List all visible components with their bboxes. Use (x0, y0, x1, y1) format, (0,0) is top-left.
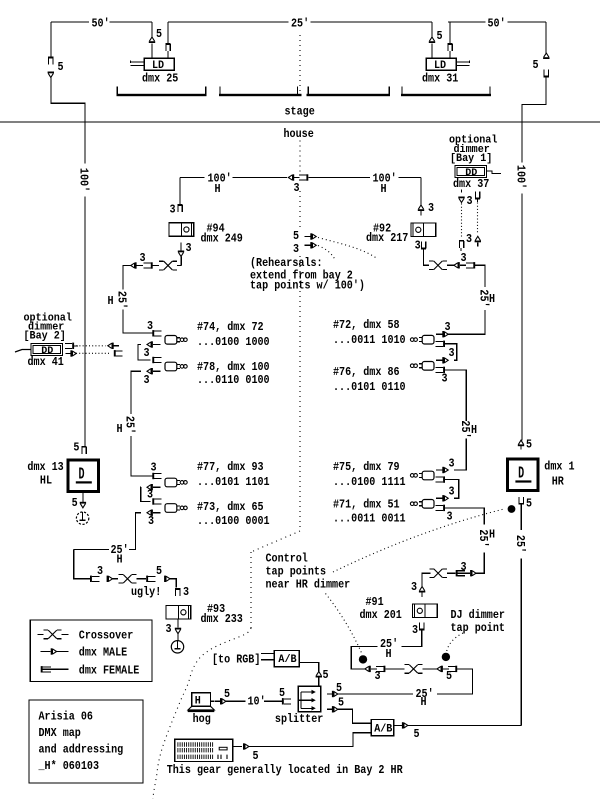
svg-text:dmx 37: dmx 37 (453, 177, 489, 191)
svg-text:3: 3 (466, 232, 472, 246)
svg-text:tap points: tap points (266, 565, 327, 579)
info box (29, 700, 143, 783)
crossover ugly (119, 574, 124, 576)
svg-text:#78, dmx 100: #78, dmx 100 (197, 360, 270, 374)
svg-text:3: 3 (140, 251, 146, 265)
svg-text:...0011 1010: ...0011 1010 (333, 333, 406, 347)
wire A/B1 to splitter (299, 663, 318, 672)
male connector above LD25 (149, 37, 154, 41)
coupling male center (292, 174, 294, 180)
dimmer LD31 box (426, 58, 456, 70)
female connector above LD25 (165, 43, 170, 45)
svg-text:dmx 13: dmx 13 (27, 460, 63, 474)
svg-text:3: 3 (170, 203, 176, 217)
svg-text:3: 3 (442, 372, 448, 386)
svg-text:DJ dimmer: DJ dimmer (451, 608, 505, 622)
bay1 lower male (475, 236, 480, 240)
wire 25' H down-left run (123, 266, 131, 290)
svg-text:25': 25' (115, 291, 129, 309)
svg-text:#71, dmx 51: #71, dmx 51 (333, 498, 400, 512)
dotted center line house upper (299, 141, 301, 174)
svg-text:...0100 0001: ...0100 0001 (197, 514, 270, 528)
svg-text:dmx 25: dmx 25 (142, 72, 178, 86)
svg-text:3: 3 (449, 457, 455, 471)
female connector below HR (519, 503, 524, 505)
stage edge section 4 (401, 94, 491, 96)
svg-text:and addressing: and addressing (39, 743, 124, 757)
fixture #77 output male (151, 484, 153, 490)
hog out male (211, 700, 214, 702)
ugly chain male 2 (164, 576, 166, 582)
svg-text:H: H (117, 422, 123, 436)
rack out male (233, 746, 242, 748)
svg-text:3: 3 (147, 319, 153, 333)
wire 100' H house-left run (180, 177, 205, 179)
svg-text:3: 3 (415, 239, 421, 253)
wire 25' center stage run (168, 21, 289, 23)
svg-text:...0110 0100: ...0110 0100 (197, 373, 270, 387)
DD bay1 male port (461, 190, 463, 193)
fixture #94 box (169, 223, 194, 237)
svg-text:100': 100' (514, 165, 528, 189)
splitter out1 male (327, 693, 332, 695)
fixture #73 output male (151, 510, 153, 516)
tap point dot left (359, 655, 367, 663)
wire #78 long run down to #77 (131, 371, 141, 414)
fixture #75 body (422, 471, 434, 480)
legend male symbol (51, 648, 53, 654)
wire below HL (82, 493, 84, 504)
splitter out2 male (327, 708, 332, 710)
svg-text:5: 5 (533, 58, 539, 72)
svg-text:25': 25' (476, 529, 490, 547)
female connector above HL (81, 446, 86, 448)
fixture #71 body (422, 500, 434, 509)
rehearsal tap male lower (310, 242, 312, 248)
wire ugly to #93 (170, 579, 176, 588)
svg-text:tap point: tap point (451, 621, 505, 635)
dotted bay2 boundary vertical (250, 552, 252, 628)
wire drop to #94 (179, 178, 181, 206)
male connector above #91 (420, 587, 425, 591)
wire 25' horizontal above ugly (74, 549, 109, 551)
male connector below #94 (178, 252, 183, 256)
svg-text:hog: hog (193, 712, 211, 726)
svg-text:dmx 31: dmx 31 (422, 72, 458, 86)
house separation line (0, 121, 600, 123)
svg-text:3: 3 (97, 564, 103, 578)
dotted rehearsal tap upper (318, 238, 377, 259)
RGB cable pair (261, 653, 274, 655)
female connector above LD31 (447, 43, 452, 45)
dotted link bay2 lower (76, 352, 111, 354)
coupling male lower chain left (369, 666, 371, 672)
svg-text:5: 5 (293, 229, 299, 243)
dimmer DD bay1 box (455, 166, 487, 178)
dotted bay2 boundary diagonal (251, 531, 300, 552)
wire 25' to #74 (123, 310, 152, 333)
wire 25' left segment (351, 646, 377, 669)
female connector below #92 (421, 248, 426, 250)
bay2 upper male (112, 343, 114, 349)
switch A/B 2 box (371, 719, 394, 735)
svg-text:H: H (386, 647, 392, 661)
male connector below #93 (175, 630, 180, 634)
bay1 lower female (459, 240, 464, 242)
dotted center line house lower (299, 256, 301, 531)
svg-text:5: 5 (414, 727, 420, 741)
wire #77 to #73 jumper (141, 487, 151, 501)
dimmer HL box (68, 460, 98, 492)
fixture #76 output female (443, 367, 445, 373)
fixture #72 output female (443, 341, 445, 347)
rehearsal tap male upper (310, 233, 312, 239)
svg-text:dmx FEMALE: dmx FEMALE (79, 664, 140, 678)
wire down to DJ crossover (476, 553, 484, 574)
wire #74 to #78 jumper (138, 345, 150, 361)
svg-text:3: 3 (151, 461, 157, 475)
tap dot near HR (508, 505, 516, 513)
svg-text:house: house (284, 127, 314, 141)
dotted link bay2 upper (73, 345, 106, 347)
svg-text:dmx 41: dmx 41 (28, 355, 64, 369)
wire crossover to #91 (422, 573, 430, 586)
wire splitter out1 to corner (338, 693, 413, 695)
svg-text:5: 5 (437, 29, 443, 43)
svg-text:50': 50' (488, 17, 506, 31)
fixture #74 input female (152, 330, 154, 336)
legend crossover symbol (38, 633, 44, 635)
svg-text:#74, dmx 72: #74, dmx 72 (197, 320, 264, 334)
svg-text:LD: LD (434, 60, 446, 72)
fixture #77 body (165, 478, 177, 487)
svg-text:H: H (489, 528, 495, 542)
svg-text:3: 3 (449, 485, 455, 499)
svg-text:5: 5 (323, 668, 329, 682)
svg-text:splitter: splitter (275, 712, 323, 726)
DD bay1 lead line (487, 171, 502, 174)
wire #92 to crossover (424, 249, 430, 266)
wire LD25 5' drop from 50' (151, 22, 153, 37)
dotted center line above stage (299, 35, 301, 92)
male connector above LD31 (429, 37, 434, 41)
svg-text:H: H (489, 292, 495, 306)
wire #71 down run to crossover (445, 508, 484, 525)
svg-text:3: 3 (183, 585, 189, 599)
dimmer DD bay2 box (31, 344, 63, 356)
svg-text:dmx 249: dmx 249 (201, 232, 243, 246)
splitter internal fork (300, 692, 302, 708)
coupling male left FOH (135, 262, 137, 268)
svg-text:5: 5 (336, 681, 342, 695)
svg-text:5: 5 (526, 438, 532, 452)
stage edge section 1 (117, 94, 207, 96)
legend female symbol (41, 666, 43, 672)
wire #75 to #71 jumper (445, 480, 459, 499)
female connector above #93 (175, 588, 180, 590)
svg-text:LD: LD (152, 60, 164, 72)
svg-text:...0011 0011: ...0011 0011 (333, 512, 406, 526)
ugly chain female 1 (90, 576, 92, 582)
stage edge section 3 (307, 94, 391, 96)
svg-text:H: H (381, 182, 387, 196)
wire down to #75 (454, 439, 466, 471)
svg-text:5: 5 (72, 496, 78, 510)
svg-text:100': 100' (77, 168, 91, 192)
svg-text:dmx 201: dmx 201 (360, 608, 402, 622)
female at splitter input (282, 698, 284, 704)
svg-text:3: 3 (294, 181, 300, 195)
dotted bay2 boundary curve (153, 628, 251, 799)
svg-text:[to RGB]: [to RGB] (212, 653, 260, 667)
dotted callout control to left tap dot (326, 594, 363, 655)
male connector above #92 (418, 205, 423, 209)
svg-text:#77, dmx 93: #77, dmx 93 (197, 460, 264, 474)
wire #72 to #76 jumper (445, 344, 457, 361)
svg-text:#72, dmx 58: #72, dmx 58 (333, 318, 400, 332)
svg-text:H: H (108, 294, 114, 308)
fixture #74 body (165, 336, 177, 345)
dimmer HR box (508, 459, 538, 491)
svg-text:HR: HR (552, 474, 565, 488)
dimmer LD25 box (144, 58, 174, 70)
DD bay2 male port (70, 350, 72, 356)
svg-text:5: 5 (279, 686, 285, 700)
svg-text:25': 25' (458, 420, 472, 438)
wire LD25 drop from 25' line (167, 22, 169, 44)
crossover left FOH (159, 260, 164, 262)
svg-text:...0101 0110: ...0101 0110 (333, 380, 406, 394)
wire below #93 (177, 619, 179, 628)
svg-text:H: H (195, 696, 201, 708)
fixture #78 input female (152, 357, 154, 363)
crossover DJ chain (429, 568, 434, 570)
hog console box (192, 693, 211, 707)
terminator at HL (76, 512, 88, 524)
svg-text:H: H (421, 695, 427, 709)
svg-text:50': 50' (92, 17, 110, 31)
coupling female lower chain left (384, 666, 386, 672)
fixture #75 output female (443, 476, 445, 482)
coupling female right FOH (473, 262, 475, 268)
svg-text:3: 3 (144, 346, 150, 360)
coupling female lower chain right (455, 666, 457, 672)
fixture #76 body (422, 362, 434, 371)
female connector above #94 (177, 204, 182, 206)
svg-text:25': 25' (513, 535, 527, 553)
ugly chain male 1 (107, 576, 109, 582)
svg-text:near HR dimmer: near HR dimmer (266, 578, 351, 592)
svg-text:25': 25' (123, 416, 137, 434)
svg-text:This gear generally located in: This gear generally located in Bay 2 HR (167, 763, 404, 777)
svg-text:...0100 1000: ...0100 1000 (197, 335, 270, 349)
svg-text:[Bay 2]: [Bay 2] (24, 331, 66, 343)
wire hog to splitter (226, 700, 246, 702)
svg-text:3: 3 (147, 488, 153, 502)
svg-text:3: 3 (449, 346, 455, 360)
svg-text:5: 5 (58, 60, 64, 74)
svg-text:3: 3 (467, 194, 473, 208)
tap point dot right (442, 653, 450, 661)
wire 50' stage-right horizontal run (448, 21, 486, 23)
svg-text:3: 3 (412, 623, 418, 637)
svg-text:5: 5 (73, 441, 79, 455)
crossover right FOH (429, 260, 434, 262)
svg-text:dmx 233: dmx 233 (201, 612, 243, 626)
svg-text:ugly!: ugly! (131, 585, 161, 599)
DD bay2 female port (72, 343, 74, 349)
wire below #94 (180, 243, 182, 251)
rack vents (178, 742, 213, 746)
switch A/B 1 box (274, 651, 299, 667)
male connector on stage-right drop (544, 53, 549, 57)
male connector into splitter (316, 672, 321, 676)
fixture #92 box (411, 223, 436, 237)
svg-text:H: H (215, 182, 221, 196)
fixture #73 body (165, 504, 177, 513)
wire #73 down to 25' run (129, 513, 141, 550)
fixture #71 output female (443, 505, 445, 511)
terminator at #93 (171, 641, 183, 653)
wire stage-left drop lower (51, 78, 85, 164)
fixture #78 body (165, 362, 177, 371)
wire #94 to crossover (180, 257, 182, 266)
female connector on stage-left drop (48, 57, 53, 59)
fixture #78 output male (151, 368, 153, 374)
female connector on stage-right drop (544, 76, 549, 78)
male connector on stage-left drop (48, 73, 53, 77)
wire HR down run (520, 504, 522, 530)
wire splitter out2 to A/B2 (338, 709, 371, 723)
coupling male at DJ chain (470, 570, 472, 576)
svg-text:5: 5 (224, 687, 230, 701)
svg-text:dmx 217: dmx 217 (366, 231, 408, 245)
svg-text:5: 5 (338, 696, 344, 710)
dotted rehearsal tap lower (318, 246, 335, 260)
fixture #71 input male (442, 495, 444, 501)
ugly chain female 2 (146, 576, 148, 582)
wire LD31 drop from 50' line (449, 22, 451, 44)
wire down to #77 (131, 436, 152, 476)
wire #91 down to 25' run (401, 630, 422, 647)
rack device box (175, 739, 233, 761)
svg-text:[Bay 1]: [Bay 1] (450, 153, 492, 165)
wire HR down run lower (520, 559, 522, 726)
male connector above HR (518, 440, 523, 444)
wire down to ugly chain (74, 550, 90, 579)
DD bay1 female port (475, 198, 480, 200)
svg-text:25': 25' (291, 17, 309, 31)
wire 25' to #72 (448, 310, 485, 334)
fixture #93 box (166, 606, 191, 620)
wire 100' H house-right run (308, 177, 370, 179)
svg-text:tap points w/ 100'): tap points w/ 100') (250, 278, 365, 292)
dotted callout control to HR dot (333, 509, 504, 572)
svg-text:HL: HL (40, 474, 52, 488)
svg-text:#75, dmx 79: #75, dmx 79 (333, 460, 400, 474)
wire rack to A/B2 lower port (249, 733, 371, 747)
svg-text:3: 3 (461, 560, 467, 574)
svg-text:A/B: A/B (278, 654, 297, 666)
svg-text:10': 10' (248, 695, 266, 709)
coupling female center (306, 174, 308, 180)
wire stage-right drop to house-right 100' (545, 22, 547, 53)
fixture #76 input male (442, 357, 444, 363)
svg-text:5: 5 (526, 497, 532, 511)
dotted callout DJ tap point (447, 633, 464, 652)
svg-text:3: 3 (144, 373, 150, 387)
svg-text:3: 3 (411, 580, 417, 594)
svg-text:Control: Control (266, 552, 308, 566)
svg-text:5: 5 (253, 749, 259, 763)
svg-text:dmx MALE: dmx MALE (79, 646, 127, 660)
wire #76 down run (445, 370, 466, 421)
svg-text:_H* 060103: _H* 060103 (38, 759, 99, 773)
svg-text:...0101 1101: ...0101 1101 (197, 475, 270, 489)
svg-text:3: 3 (447, 510, 453, 524)
wire house-left 100' vertical (84, 197, 86, 447)
wire drop to #92 (420, 178, 422, 206)
svg-text:#73, dmx 65: #73, dmx 65 (197, 500, 264, 514)
coupling female left FOH (151, 262, 153, 268)
bay2 lower female (114, 350, 116, 356)
fixture #91 box (413, 604, 438, 618)
fixture #73 input female (152, 498, 154, 504)
wire house-right 100' vertical (521, 194, 523, 441)
fixture #72 body (422, 335, 434, 344)
wire stage-left drop to house-left 100' (50, 22, 52, 58)
svg-text:A/B: A/B (374, 724, 393, 736)
wire 50' stage-left horizontal run (51, 21, 89, 23)
wire lower chain to splitter level (437, 669, 472, 694)
coupling male lower chain right (441, 666, 443, 672)
stage edge section 2 (219, 94, 302, 96)
female connector below #91 (419, 629, 424, 631)
A/B2 out male (394, 724, 402, 726)
svg-text:Crossover: Crossover (79, 629, 133, 643)
legend box (30, 620, 152, 682)
coupling female at DJ chain (456, 570, 458, 576)
dotted link bay1 right (477, 203, 479, 235)
wire 25' H down-right run (475, 265, 485, 287)
male connector below HL (80, 504, 85, 508)
splitter box (298, 686, 321, 712)
fixture #72 input male (442, 331, 444, 337)
svg-text:#76, dmx 86: #76, dmx 86 (333, 365, 400, 379)
svg-text:5: 5 (156, 27, 162, 41)
svg-text:3: 3 (293, 242, 299, 256)
fixture #74 output male (151, 341, 153, 347)
svg-text:dmx 1: dmx 1 (544, 460, 574, 474)
LD31 plug prongs (456, 61, 470, 63)
svg-text:H: H (471, 423, 477, 437)
svg-text:#91: #91 (366, 595, 384, 609)
DD bay2 lead line (15, 350, 31, 353)
svg-text:3: 3 (148, 514, 154, 528)
svg-text:3: 3 (461, 251, 467, 265)
svg-text:3: 3 (166, 622, 172, 636)
wire stage-right drop lower (522, 77, 546, 163)
svg-text:3: 3 (186, 241, 192, 255)
svg-text:stage: stage (285, 105, 315, 119)
svg-text:Arisia 06: Arisia 06 (39, 710, 93, 724)
crossover lower chain (405, 664, 410, 666)
fixture #77 input female (152, 473, 154, 479)
svg-text:...0100 1111: ...0100 1111 (333, 475, 406, 489)
svg-text:3: 3 (428, 201, 434, 215)
coupling male right FOH (458, 262, 460, 268)
wire A/B2 out to HR run (408, 724, 522, 726)
